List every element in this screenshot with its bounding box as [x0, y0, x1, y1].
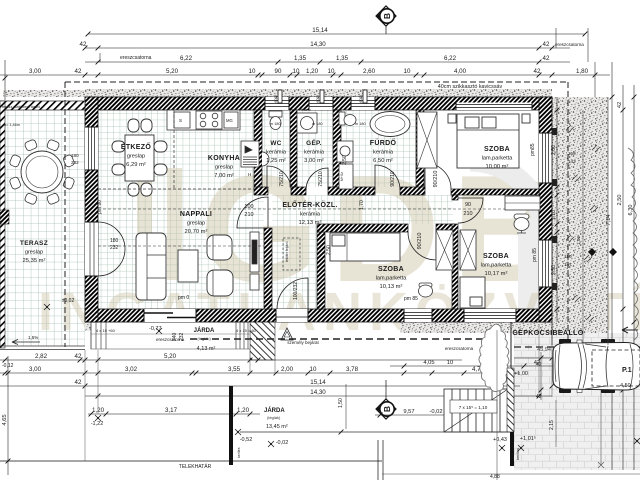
svg-text:S: S	[179, 118, 182, 123]
svg-text:-0,02: -0,02	[276, 440, 289, 446]
window szoba top	[456, 103, 532, 111]
wc toilet	[269, 111, 282, 130]
svg-text:1,35: 1,35	[336, 55, 349, 62]
gravel band below bottom wall left part	[85, 322, 144, 331]
svg-text:(téglák): (téglák)	[267, 415, 281, 420]
dim right 2,00	[514, 357, 640, 359]
parking dashed guide	[514, 346, 640, 348]
svg-text:10: 10	[404, 68, 411, 75]
svg-text:10,17 m²: 10,17 m²	[485, 271, 508, 277]
svg-text:5,20: 5,20	[166, 68, 179, 75]
telekhatar line	[0, 460, 382, 462]
svg-text:-1,22: -1,22	[91, 421, 104, 427]
svg-text:h= 1,46m: h= 1,46m	[4, 123, 20, 127]
svg-text:60Ø: 60Ø	[315, 95, 320, 103]
furdo tall unit	[339, 164, 353, 189]
window wc top	[265, 97, 289, 110]
svg-text:kerámia: kerámia	[373, 150, 394, 156]
dim 9,57	[375, 414, 512, 416]
svg-text:3,00: 3,00	[29, 366, 42, 373]
svg-text:14,30: 14,30	[310, 41, 326, 48]
svg-text:90: 90	[465, 202, 471, 208]
svg-text:2,60: 2,60	[363, 68, 376, 75]
svg-text:60Ø: 60Ø	[273, 95, 278, 103]
svg-text:3,00: 3,00	[29, 68, 42, 75]
szoba10 wardrobe	[417, 112, 437, 168]
svg-text:kerítés: kerítés	[515, 448, 520, 460]
svg-text:90/210: 90/210	[433, 171, 439, 188]
svg-text:10,00 m²: 10,00 m²	[486, 164, 509, 170]
svg-text:2,15: 2,15	[549, 420, 555, 430]
svg-text:20,70 m²: 20,70 m²	[185, 229, 208, 235]
wall gep-furdo	[333, 110, 341, 187]
stairs bottom	[444, 389, 508, 432]
terasz garden wall left	[0, 101, 5, 348]
rain pipes	[278, 90, 282, 103]
door szoba10	[425, 163, 451, 189]
right hedge	[628, 148, 639, 340]
szoba17 top wardrobe	[505, 196, 540, 210]
svg-text:7 x 15⁵ = 1,10: 7 x 15⁵ = 1,10	[459, 405, 488, 410]
svg-text:42: 42	[543, 41, 550, 48]
svg-text:m 180: m 180	[355, 122, 366, 126]
svg-text:210: 210	[463, 211, 472, 217]
svg-text:3,17: 3,17	[165, 407, 178, 414]
svg-text:100/232: 100/232	[293, 282, 299, 300]
marker B bottom	[376, 380, 396, 419]
dim row bottom 1,20/3,17	[88, 413, 260, 415]
svg-text:75/210: 75/210	[318, 171, 324, 187]
outer wall bottom	[85, 309, 552, 322]
svg-text:H: H	[248, 172, 251, 177]
window etkezo left	[85, 127, 98, 170]
svg-text:pm 85: pm 85	[532, 248, 538, 262]
svg-text:10: 10	[447, 360, 453, 366]
svg-text:90/210: 90/210	[417, 233, 423, 250]
svg-text:B: B	[382, 406, 392, 412]
svg-text:WC: WC	[270, 140, 281, 147]
svg-text:1,20: 1,20	[92, 407, 105, 414]
svg-text:10,13 m²: 10,13 m²	[380, 284, 403, 290]
svg-text:7,14: 7,14	[606, 214, 612, 226]
svg-text:pm85: pm85	[530, 143, 536, 156]
svg-text:1,00: 1,00	[576, 236, 581, 245]
svg-text:90: 90	[275, 68, 282, 75]
svg-text:42: 42	[75, 379, 82, 386]
dining table	[112, 119, 167, 196]
window reveals right wall	[552, 128, 557, 290]
entrance door gap	[276, 309, 308, 322]
szoba17 bed	[460, 277, 485, 308]
right vertical dims	[611, 62, 613, 470]
gep floor tiles	[297, 110, 333, 187]
svg-text:6,22: 6,22	[180, 55, 193, 62]
svg-text:±0,02: ±0,02	[62, 298, 75, 304]
dashed nappali line	[98, 245, 264, 247]
svg-text:6,50 m²: 6,50 m²	[373, 158, 393, 164]
furdo toilet	[339, 112, 356, 126]
svg-text:42: 42	[80, 41, 87, 48]
furdo bathtub	[370, 112, 410, 137]
svg-text:180: 180	[71, 153, 79, 158]
svg-text:15,14: 15,14	[312, 27, 328, 34]
svg-text:SZOBA: SZOBA	[484, 146, 510, 153]
svg-text:greslap: greslap	[215, 165, 233, 171]
scattered hatch marks on gravel	[566, 125, 600, 322]
wall wc-gep	[290, 110, 297, 187]
svg-text:42: 42	[536, 394, 542, 400]
szoba13 wardrobe	[436, 230, 453, 270]
svg-text:pm 85: pm 85	[404, 296, 418, 302]
svg-text:232: 232	[71, 160, 79, 165]
door szoba17	[458, 198, 483, 223]
svg-text:FÜRDŐ: FÜRDŐ	[370, 138, 397, 147]
wc basin	[262, 152, 269, 166]
jarda steps left	[91, 322, 106, 349]
svg-text:3,78: 3,78	[346, 366, 359, 373]
svg-text:Hősz.b: Hősz.b	[299, 108, 311, 112]
wall furdo-szoba	[416, 110, 424, 189]
svg-text:42: 42	[75, 68, 82, 75]
svg-text:2,50: 2,50	[342, 155, 348, 165]
svg-text:150: 150	[564, 254, 572, 259]
svg-text:4,50: 4,50	[620, 383, 631, 389]
svg-text:greslap: greslap	[187, 221, 205, 227]
garden wall pillar	[0, 210, 9, 224]
svg-text:60Ø: 60Ø	[358, 95, 363, 103]
roofline dashed bottom	[190, 338, 492, 340]
armchair 1	[207, 235, 232, 260]
svg-text:kerámia: kerámia	[304, 150, 325, 156]
dim row bottom 14,30	[85, 395, 552, 397]
dashed divider etkezo-konyha	[98, 110, 254, 190]
svg-text:75/210: 75/210	[279, 171, 285, 187]
jarda steps right	[236, 322, 248, 349]
fridge	[241, 141, 259, 167]
window furdo top	[351, 97, 375, 110]
szoba10 double bed	[448, 114, 530, 168]
svg-text:100: 100	[244, 204, 253, 210]
svg-text:-0,02: -0,02	[429, 409, 442, 415]
svg-text:terasz alatti kerti tároló: terasz alatti kerti tároló	[2, 105, 40, 109]
dashed corridor centerline	[98, 208, 505, 210]
svg-text:ÉTKEZŐ: ÉTKEZŐ	[121, 142, 151, 151]
svg-text:12,13 m²: 12,13 m²	[299, 220, 322, 226]
svg-text:P.1: P.1	[622, 367, 632, 374]
svg-text:tetőtér feljáró: tetőtér feljáró	[285, 242, 289, 262]
nappali floor tiles	[254, 195, 264, 309]
svg-text:személy bejárat: személy bejárat	[287, 340, 319, 345]
svg-text:M+Sz: M+Sz	[340, 172, 344, 181]
svg-text:15,14: 15,14	[310, 379, 326, 386]
survey diamonds right	[588, 248, 596, 256]
dim row bottom 3,00 / 3,02	[0, 372, 520, 374]
svg-text:+0,43: +0,43	[493, 437, 507, 443]
svg-text:pm 0: pm 0	[178, 295, 189, 301]
stove burners	[196, 111, 222, 129]
svg-text:+1,00: +1,00	[514, 371, 528, 377]
door nappali-terasz gap	[85, 222, 98, 276]
entrance path hatch	[250, 319, 275, 360]
svg-text:TERASZ: TERASZ	[20, 240, 48, 247]
svg-text:25,35 m²: 25,35 m²	[23, 258, 46, 264]
svg-text:42: 42	[534, 68, 541, 75]
svg-text:4,05: 4,05	[423, 360, 434, 366]
svg-text:5,20: 5,20	[164, 353, 177, 360]
szoba13 bed	[330, 233, 400, 261]
dim row bottom 42/15,14	[0, 385, 520, 387]
svg-text:2,50: 2,50	[617, 195, 623, 206]
svg-text:GÉPKOCSIBEÁLLÓ: GÉPKOCSIBEÁLLÓ	[512, 328, 583, 337]
svg-text:7,00 m²: 7,00 m²	[214, 173, 234, 179]
svg-text:-0,52: -0,52	[240, 437, 253, 443]
fence hatch strip	[507, 368, 514, 432]
wall szoba13-szoba17	[452, 195, 458, 200]
svg-text:4 x 15 +60: 4 x 15 +60	[96, 328, 116, 333]
svg-text:180: 180	[110, 238, 119, 244]
svg-text:2,82: 2,82	[35, 353, 48, 360]
door gep	[306, 168, 328, 190]
svg-text:147: 147	[564, 262, 572, 267]
svg-text:40cm szikkasztó kavicssáv: 40cm szikkasztó kavicssáv	[438, 84, 503, 90]
svg-text:m 180: m 180	[270, 122, 281, 126]
window gep top	[309, 97, 333, 110]
outer wall left	[85, 97, 98, 322]
roofline dashed top	[65, 81, 568, 83]
svg-text:42: 42	[617, 102, 623, 108]
svg-text:13,45 m²: 13,45 m²	[266, 424, 288, 430]
svg-text:10: 10	[328, 68, 335, 75]
svg-text:6,29 m²: 6,29 m²	[126, 162, 146, 168]
parking arrow	[622, 327, 638, 333]
wall konyha-wc	[254, 110, 262, 187]
svg-text:(téglák): (téglák)	[197, 336, 211, 341]
gravel area right of building	[552, 97, 608, 345]
svg-text:ereszcsatorna: ereszcsatorna	[120, 55, 152, 61]
wall nappali-eloter	[264, 228, 272, 309]
vertical dim line through gravel	[582, 110, 584, 345]
dim row bottom 2,82 / 5,20	[0, 359, 462, 361]
szoba17 desk chair	[514, 214, 529, 233]
dim row 6,22	[85, 61, 570, 63]
dim row 14,30	[85, 47, 570, 49]
coffee table	[178, 250, 198, 282]
svg-text:6,22: 6,22	[444, 55, 457, 62]
terasz chairs	[9, 139, 75, 205]
svg-text:3,02: 3,02	[125, 366, 138, 373]
svg-text:greslap: greslap	[127, 154, 145, 160]
svg-text:3,55: 3,55	[228, 366, 241, 373]
window szoba17 right	[539, 240, 552, 287]
svg-text:greslap: greslap	[25, 250, 43, 256]
wc floor tiles	[262, 110, 290, 187]
svg-text:150: 150	[568, 151, 576, 156]
wall szoba13 left	[317, 232, 325, 309]
outer wall top	[85, 97, 552, 110]
terasz bottom edge	[0, 346, 85, 350]
wall szoba13 top segments	[317, 224, 408, 232]
door nappali	[237, 197, 268, 228]
svg-text:4,88: 4,88	[490, 474, 500, 480]
svg-text:SZOBA: SZOBA	[483, 253, 509, 260]
svg-text:kerámia: kerámia	[266, 150, 287, 156]
svg-text:TELEKHATÁR: TELEKHATÁR	[179, 463, 212, 470]
roofline dashed left	[64, 82, 66, 347]
corridor attic hatch dashed	[283, 238, 300, 270]
svg-text:2,00: 2,00	[281, 366, 294, 373]
gravel band above top wall	[3, 90, 85, 97]
svg-text:90/210: 90/210	[390, 171, 396, 187]
dim row 4,05	[390, 365, 555, 367]
svg-text:42: 42	[536, 362, 542, 368]
jarda strip	[91, 322, 250, 349]
svg-text:ereszcsatorna: ereszcsatorna	[555, 42, 584, 47]
parking paving (gepkocsibeallo)	[514, 333, 640, 470]
svg-text:ereszcsatorna: ereszcsatorna	[156, 337, 185, 342]
svg-text:10: 10	[310, 366, 317, 373]
svg-text:4,65: 4,65	[2, 414, 8, 425]
terasz floor tiles	[0, 110, 85, 346]
svg-text:MG: MG	[226, 118, 233, 123]
sofa nappali	[136, 233, 166, 300]
parking space P.1 dashed	[592, 350, 640, 386]
svg-text:ereszcsatorna: ereszcsatorna	[445, 346, 474, 351]
bush hedge	[479, 324, 509, 392]
svg-text:14,30: 14,30	[310, 389, 326, 396]
svg-text:kerítés: kerítés	[237, 447, 241, 458]
svg-text:+1,01⁵: +1,01⁵	[520, 435, 536, 442]
eloter entrance leg floor tiles	[272, 224, 317, 309]
svg-text:210: 210	[244, 212, 253, 218]
entrance triangle	[281, 328, 293, 340]
svg-text:42: 42	[543, 55, 550, 62]
svg-text:lam.parketta: lam.parketta	[376, 276, 408, 282]
svg-text:147: 147	[568, 159, 576, 164]
window szoba17 bottom	[464, 309, 516, 322]
svg-text:45,94: 45,94	[537, 347, 551, 353]
svg-text:JÁRDA: JÁRDA	[264, 407, 285, 414]
window szoba13 bottom	[404, 309, 432, 322]
survey markers	[156, 328, 162, 334]
eloter-kozl floor tiles	[272, 195, 453, 224]
door szoba13	[408, 232, 436, 260]
svg-text:3,00 m²: 3,00 m²	[304, 158, 324, 164]
window szoba10 right	[539, 133, 552, 183]
svg-text:232: 232	[110, 245, 119, 251]
outer wall right	[539, 97, 552, 322]
etkezo-konyha floor tiles	[98, 110, 254, 309]
door terasz french	[98, 222, 125, 276]
svg-text:NAPPALI: NAPPALI	[180, 211, 212, 218]
svg-text:1,80: 1,80	[576, 68, 589, 75]
svg-text:SZOBA: SZOBA	[378, 266, 404, 273]
svg-text:m 180: m 180	[312, 122, 323, 126]
svg-text:1,5%: 1,5%	[28, 335, 38, 340]
svg-text:4 x 15 = 60: 4 x 15 = 60	[236, 328, 257, 333]
svg-text:ELŐTÉR-KÖZL.: ELŐTÉR-KÖZL.	[282, 200, 337, 209]
armchair 2	[207, 270, 233, 296]
svg-text:1,50: 1,50	[338, 398, 344, 408]
szoba13 desk chair	[419, 283, 433, 297]
gravel band right small ticks	[551, 97, 553, 345]
szoba17 wardrobe X	[460, 230, 476, 270]
terasz round table	[21, 151, 63, 193]
watermark logo big letters	[137, 144, 574, 336]
svg-text:kerámia: kerámia	[300, 212, 321, 218]
kitchen counter	[167, 110, 240, 130]
svg-text:1,70: 1,70	[359, 200, 365, 210]
svg-text:4,00: 4,00	[454, 68, 467, 75]
svg-text:2,50: 2,50	[326, 245, 332, 255]
left vertical dim	[4, 60, 6, 100]
svg-text:1,20: 1,20	[306, 68, 319, 75]
svg-text:pm 90: pm 90	[97, 200, 103, 214]
door furdo	[375, 165, 400, 190]
gep washing machine	[297, 113, 317, 133]
door entrance arc	[277, 278, 308, 309]
svg-text:KONYHA: KONYHA	[208, 155, 240, 162]
terrace sliding door	[144, 309, 196, 322]
terasz garden wall top	[0, 101, 85, 110]
svg-text:GÉP.: GÉP.	[306, 138, 322, 147]
gravel band below bottom wall right part	[400, 322, 552, 333]
roofline dashed right	[567, 82, 569, 339]
svg-text:4,13 m²: 4,13 m²	[197, 346, 216, 352]
svg-text:lam.parketta: lam.parketta	[482, 156, 514, 162]
svg-text:1,20: 1,20	[237, 407, 250, 414]
svg-text:1,35: 1,35	[294, 55, 307, 62]
marker B top	[376, 6, 396, 34]
car	[553, 339, 640, 393]
dim row 5,20 detail	[0, 74, 610, 76]
door wc	[267, 166, 291, 190]
svg-text:JÁRDA: JÁRDA	[194, 327, 215, 334]
dim row 15,14	[88, 33, 585, 35]
svg-text:B: B	[382, 13, 392, 19]
furdo floor tiles	[341, 110, 416, 187]
tv board	[250, 232, 259, 290]
svg-text:lam.parketta: lam.parketta	[481, 263, 513, 269]
svg-text:10: 10	[293, 68, 300, 75]
furdo basin cabinet	[337, 141, 353, 162]
svg-text:9,57: 9,57	[403, 409, 414, 415]
corridor top wall segments	[254, 187, 268, 195]
svg-text:10: 10	[249, 68, 256, 75]
svg-text:1,25 m²: 1,25 m²	[266, 158, 286, 164]
svg-text:42: 42	[75, 353, 82, 360]
